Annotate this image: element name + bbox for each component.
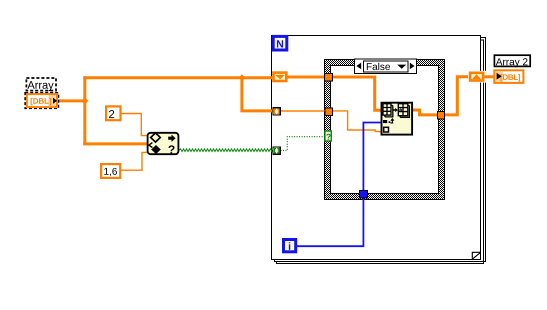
junction 2 dot — [238, 74, 245, 81]
case tunnel 3 (orange, array out) — [438, 112, 445, 120]
case structure inner area — [331, 66, 438, 193]
right array grid shadow — [400, 106, 409, 118]
comparison icon question mark — [168, 145, 174, 153]
junction 1 dot — [81, 97, 88, 104]
comparison icon hollow diamond — [151, 133, 161, 142]
for loop count terminal N — [273, 36, 287, 50]
wire: indexed element inside loop (thin orange) — [281, 110, 326, 112]
constant 1,6 — [101, 164, 120, 178]
for loop page-fold corner — [472, 252, 480, 259]
small bent arrow glyph — [390, 119, 394, 123]
wire: replace-subset output to case right tunnel (thick orange) — [413, 110, 438, 115]
loop tunnel indexing orange [] — [272, 107, 280, 115]
case selector right arrow — [410, 63, 415, 70]
wire: case tunnel 1 to array input (thick orange) — [333, 77, 382, 110]
case selector label box — [355, 59, 417, 74]
wire: boolean zigzag comparison output to loop tunnel (green) — [179, 149, 273, 152]
for loop main border — [272, 36, 481, 260]
small filled square glyph — [383, 120, 387, 123]
replace array subset icon — [382, 103, 413, 135]
Array 2 indicator label — [494, 55, 530, 67]
wire: top run to left shift register (thick orange) — [83, 76, 272, 79]
left shift register (down arrow) — [274, 73, 287, 81]
wire: boolean dotted to case selector terminal (green) — [281, 137, 325, 151]
wire: junction 1 vertical (thick orange) — [83, 76, 86, 145]
comparison function icon — [148, 133, 179, 154]
case selector left arrow — [356, 63, 361, 70]
wire: right shift register to Array 2 terminal (thick orange) — [484, 75, 494, 78]
case tunnel 1 (orange, array in) — [325, 73, 333, 81]
for loop back sheet 2 — [276, 40, 484, 265]
transfer arrow — [393, 108, 398, 112]
small dot glyph — [389, 121, 391, 123]
case selector terminal ? — [325, 131, 331, 141]
wire: iteration i to case index input (blue) — [297, 123, 381, 247]
case tunnel 2 (orange, element in) — [325, 108, 333, 116]
left array grid shadow — [385, 106, 393, 117]
white notch behind right shift register — [468, 71, 487, 83]
right array grid — [398, 104, 408, 116]
for loop iteration terminal i — [284, 240, 296, 252]
left array grid — [383, 104, 391, 115]
case tunnel 4 (blue, index in, bottom) — [359, 190, 367, 198]
case structure checkered border — [324, 59, 445, 200]
for loop back sheet 1 — [274, 37, 486, 262]
wire: left shift register to case tunnel 1 (thick orange) — [287, 76, 325, 79]
case selector text False — [367, 63, 390, 70]
comparison icon caret — [149, 143, 153, 148]
Array 2 indicator terminal [DBL] — [494, 70, 523, 83]
wire: case right tunnel to right shift register (thick orange) — [445, 77, 469, 115]
wire: case tunnel 2 to new-element input (thin orange) — [333, 111, 381, 132]
wire: junction 2 drop into loop tunnel (thick orange) — [242, 78, 273, 111]
open square glyph — [384, 127, 389, 132]
comparison icon filled diamond — [151, 145, 161, 154]
loop tunnel indexing green [] — [272, 146, 280, 154]
wire: junction 1 to comparison mid input (thick orange) — [83, 142, 147, 145]
wire: constant 2 to comparison top input (thin orange) — [121, 114, 148, 136]
case selector dropdown arrow — [397, 65, 406, 69]
marker diamond in right grid — [399, 108, 402, 111]
Array control terminal [DBL] — [25, 93, 58, 108]
wire: constant 1,6 to comparison bottom input (thin orange) — [120, 152, 147, 170]
wire: array control to junction 1 (thick orange) — [58, 99, 85, 102]
comparison icon arrow glyph — [168, 135, 175, 142]
right shift register (up arrow) — [470, 73, 483, 81]
constant 2 — [106, 106, 120, 120]
Array control label — [26, 78, 56, 91]
